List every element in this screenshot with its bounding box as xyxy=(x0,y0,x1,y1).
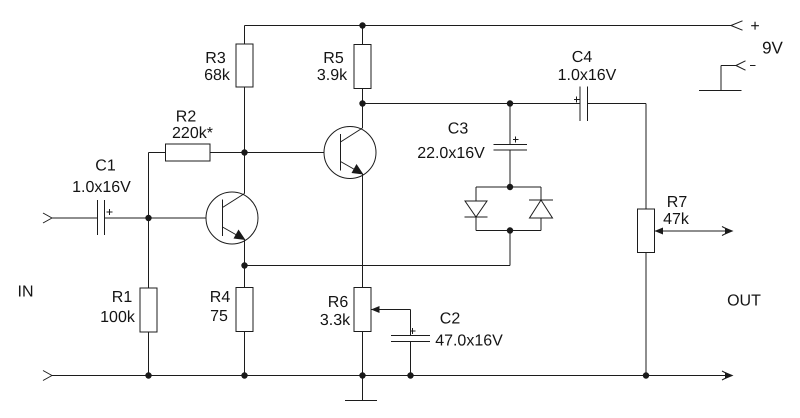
svg-text:C3: C3 xyxy=(448,121,469,138)
svg-text:100k: 100k xyxy=(100,309,136,326)
svg-text:9V: 9V xyxy=(762,39,783,58)
svg-text:OUT: OUT xyxy=(727,293,761,310)
svg-text:3.9k: 3.9k xyxy=(317,67,348,84)
svg-text:C1: C1 xyxy=(95,158,116,175)
svg-text:47k: 47k xyxy=(663,211,690,228)
svg-text:3.3k: 3.3k xyxy=(320,312,351,329)
svg-text:R2: R2 xyxy=(176,109,197,126)
svg-text:R7: R7 xyxy=(667,194,688,211)
svg-text:+: + xyxy=(750,18,759,35)
svg-text:1.0x16V: 1.0x16V xyxy=(72,179,131,196)
svg-text:68k: 68k xyxy=(204,67,231,84)
svg-text:220k*: 220k* xyxy=(172,125,213,142)
svg-text:1.0x16V: 1.0x16V xyxy=(558,67,617,84)
svg-text:75: 75 xyxy=(210,308,228,325)
svg-text:R5: R5 xyxy=(323,50,344,67)
svg-text:R3: R3 xyxy=(205,50,226,67)
svg-text:C2: C2 xyxy=(440,311,461,328)
svg-text:47.0x16V: 47.0x16V xyxy=(435,333,503,350)
svg-text:R6: R6 xyxy=(328,294,349,311)
svg-text:R4: R4 xyxy=(210,289,231,306)
svg-text:22.0x16V: 22.0x16V xyxy=(417,145,485,162)
svg-text:R1: R1 xyxy=(112,289,133,306)
svg-text:C4: C4 xyxy=(572,49,593,66)
svg-text:IN: IN xyxy=(18,284,34,301)
